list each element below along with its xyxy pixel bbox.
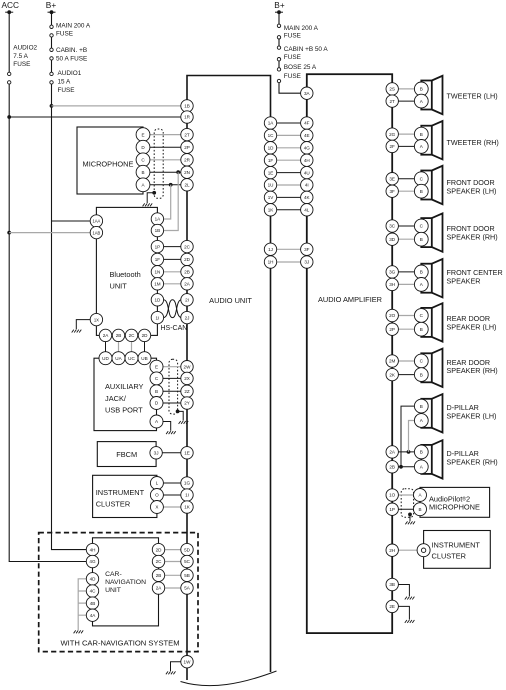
D-pillar speaker LH icon — [421, 394, 442, 432]
microphone pin A — [136, 178, 150, 192]
svg-text:INSTRUMENT: INSTRUMENT — [96, 488, 145, 497]
svg-text:MICROPHONE: MICROPHONE — [429, 503, 480, 512]
amplifier pin 3G — [386, 266, 398, 278]
front center speaker icon — [421, 259, 442, 297]
svg-text:3A: 3A — [304, 91, 311, 96]
audio unit pin 5A — [181, 582, 193, 594]
amplifier pin 2M — [386, 355, 398, 367]
wire mic D to 2P — [143, 146, 181, 148]
svg-text:CABIN +B 50 A: CABIN +B 50 A — [284, 46, 329, 53]
aux jack pin D — [150, 397, 163, 410]
svg-text:1G: 1G — [184, 481, 191, 486]
svg-text:1C: 1C — [268, 133, 275, 138]
audio unit pin 2J — [181, 311, 193, 323]
svg-text:SPEAKER (RH): SPEAKER (RH) — [447, 457, 498, 466]
aux jack pin A — [150, 415, 163, 428]
audio unit pin 1J — [264, 243, 276, 255]
svg-text:2B: 2B — [389, 465, 395, 470]
wire amp 3D to front door RH B — [392, 238, 421, 240]
amplifier pin 1O — [386, 489, 398, 501]
bluetooth pin 2B — [112, 329, 124, 341]
svg-text:15 A: 15 A — [58, 79, 72, 86]
svg-text:CABIN. +B: CABIN. +B — [56, 47, 87, 54]
svg-text:4E: 4E — [304, 133, 310, 138]
aux/usb shielded cable — [169, 359, 178, 414]
svg-text:X: X — [155, 505, 158, 510]
car-nav pin 4D — [86, 573, 98, 585]
svg-text:2T: 2T — [184, 132, 190, 137]
svg-text:USB PORT: USB PORT — [105, 406, 143, 415]
svg-text:7.5 A: 7.5 A — [13, 53, 28, 60]
svg-text:2P: 2P — [184, 145, 190, 150]
fuse CABIN +B 50A (2) — [277, 46, 280, 61]
svg-text:3C: 3C — [389, 224, 396, 229]
aux jack pin UC — [125, 352, 138, 365]
amplifier pin 2O — [386, 309, 398, 321]
amplifier pin 2T — [386, 95, 398, 107]
wire bt 2B to aux UA — [118, 341, 120, 352]
wire amp 3G to front center B — [392, 271, 421, 273]
wire amp 2K to rear door RH B — [392, 374, 421, 376]
svg-text:3B: 3B — [389, 582, 395, 587]
svg-text:AUXILIARY: AUXILIARY — [105, 382, 144, 391]
svg-text:1F: 1F — [268, 158, 274, 163]
amplifier pin 4H — [301, 154, 313, 166]
wire bt 2C to aux UC — [131, 341, 133, 352]
bluetooth pin 1P — [151, 240, 163, 252]
wire bt 1P to 2C — [164, 246, 182, 248]
amplifier pin 3F — [301, 243, 313, 255]
front door LH pin B — [414, 184, 428, 198]
wire cluster L to 1G — [157, 482, 181, 484]
svg-text:3H: 3H — [389, 282, 395, 287]
car-nav pin 4H — [86, 543, 98, 555]
audio unit pin 2A — [181, 278, 193, 290]
amplifier pin 2K — [386, 368, 398, 380]
audio unit pin 1B — [181, 100, 193, 112]
fuse MAIN 200A — [50, 25, 53, 37]
ground (amp 2E) — [405, 620, 415, 623]
rear door RH pin C — [414, 354, 428, 368]
svg-text:1P: 1P — [389, 507, 395, 512]
svg-text:B: B — [420, 270, 423, 275]
svg-text:2O: 2O — [389, 313, 396, 318]
svg-text:5B: 5B — [184, 573, 190, 578]
bluetooth pin 1A — [151, 213, 163, 225]
bluetooth pin 1N — [151, 266, 163, 278]
svg-text:50 A FUSE: 50 A FUSE — [56, 56, 87, 63]
wire to D-pillar LH A — [409, 421, 422, 452]
svg-text:TWEETER (RH): TWEETER (RH) — [447, 138, 499, 147]
svg-text:1O: 1O — [389, 493, 396, 498]
bluetooth unit box — [96, 207, 157, 335]
svg-text:B: B — [420, 450, 423, 455]
svg-text:HS-CAN: HS-CAN — [161, 325, 188, 332]
front door speaker LH icon — [421, 166, 442, 204]
wire bt 1M to 2A — [164, 283, 182, 285]
wire cluster X to 1K — [157, 506, 181, 508]
audio unit pin 1F — [264, 154, 276, 166]
svg-text:UNIT: UNIT — [110, 282, 128, 291]
svg-text:4K: 4K — [304, 195, 311, 200]
svg-text:2J: 2J — [185, 315, 190, 320]
wire amp 3F to front door LH B — [392, 190, 421, 192]
svg-text:1K: 1K — [184, 505, 191, 510]
wire mic B to 2N — [143, 171, 181, 173]
svg-text:1A: 1A — [155, 217, 162, 222]
rear door speaker RH icon — [421, 349, 442, 387]
D-pillar RH pin B — [414, 445, 428, 459]
svg-text:1I: 1I — [185, 493, 189, 498]
svg-text:SPEAKER (RH): SPEAKER (RH) — [447, 233, 498, 242]
wire audio unit to amplifier y=172.6 — [277, 172, 301, 174]
ground (audiopilot shield) — [405, 521, 415, 524]
ground (audio unit 1W) — [166, 671, 176, 674]
svg-text:1D: 1D — [268, 146, 275, 151]
wire nav 2A to 5A — [165, 587, 182, 589]
audio unit pin 1H — [264, 256, 276, 268]
bluetooth pin 2A — [99, 329, 111, 341]
audio unit pin 1D — [264, 142, 276, 154]
D-pillar RH pin A — [414, 460, 428, 474]
wire nav 2D to 5D — [165, 549, 182, 551]
wire B+ to nav 4H — [87, 549, 93, 551]
svg-text:1B: 1B — [155, 228, 161, 233]
svg-text:B: B — [155, 389, 158, 394]
wire audio unit to amplifier y=197.4 — [277, 196, 301, 198]
wire amp 2O to rear door LH C — [392, 315, 421, 317]
wire cluster O to 1I — [157, 494, 181, 496]
svg-text:3E: 3E — [389, 176, 395, 181]
audio unit pin 2X — [181, 372, 193, 384]
svg-text:SPEAKER (LH): SPEAKER (LH) — [447, 187, 497, 196]
wire nav 2B to 5B — [165, 574, 182, 576]
wire ACC to audio unit 1R — [9, 116, 181, 118]
ground (bluetooth 1X) — [72, 330, 82, 333]
svg-text:B: B — [420, 372, 423, 377]
bluetooth pin 2C — [125, 329, 137, 341]
rear door RH pin B — [414, 368, 428, 382]
svg-text:WITH CAR-NAVIGATION SYSTEM: WITH CAR-NAVIGATION SYSTEM — [60, 638, 179, 647]
svg-text:1AA: 1AA — [92, 219, 100, 224]
wire ACC to nav 4G — [87, 561, 93, 563]
amplifier pin 3E — [386, 173, 398, 185]
svg-text:B: B — [420, 237, 423, 242]
svg-text:4G: 4G — [89, 559, 96, 564]
audio unit pin 1W — [181, 656, 193, 668]
svg-text:1I: 1I — [155, 315, 159, 320]
svg-text:B+: B+ — [274, 0, 285, 10]
svg-text:BOSE 25 A: BOSE 25 A — [284, 64, 317, 71]
tweeter LH pin A — [414, 94, 428, 108]
svg-text:INSTRUMENT: INSTRUMENT — [432, 540, 481, 549]
wire amp 2B to D-pillar RH A — [392, 466, 421, 468]
with car-navigation system dashed box — [39, 533, 198, 652]
svg-text:2A: 2A — [103, 333, 110, 338]
junction D-pillar 2B — [399, 465, 403, 469]
wire aux C to 2X — [157, 377, 182, 379]
amplifier pin 3C — [386, 220, 398, 232]
microphone pin B — [136, 165, 150, 179]
svg-text:2N: 2N — [184, 170, 190, 175]
svg-text:FUSE: FUSE — [284, 73, 301, 80]
svg-text:FUSE: FUSE — [58, 87, 75, 94]
audiopilot mic shielded cable — [401, 489, 413, 518]
amplifier pin 4K — [301, 191, 313, 203]
audiopilot microphone box — [420, 487, 490, 517]
svg-text:2L: 2L — [184, 183, 190, 188]
svg-text:FUSE: FUSE — [284, 54, 301, 61]
svg-text:1E: 1E — [184, 451, 190, 456]
fuse BOSE 25A — [277, 68, 280, 83]
audio unit pin 2N — [181, 166, 193, 178]
svg-text:1AB: 1AB — [92, 230, 100, 235]
svg-text:2S: 2S — [389, 87, 395, 92]
car-nav pin 4C — [86, 585, 98, 597]
svg-text:UC: UC — [128, 356, 135, 361]
amplifier pin 4F — [301, 117, 313, 129]
svg-text:4H: 4H — [90, 547, 96, 552]
wire amp 2A to D-pillar RH B — [392, 451, 421, 453]
svg-text:3F: 3F — [390, 189, 396, 194]
wire audio unit to amplifier y=185 — [277, 184, 301, 186]
wire mic A to 2L — [143, 184, 181, 186]
svg-text:2P: 2P — [389, 327, 395, 332]
amplifier pin 2G — [386, 128, 398, 140]
svg-text:B: B — [420, 189, 423, 194]
junction mic shield — [152, 191, 156, 195]
aux jack pin E — [150, 360, 163, 373]
aux jack pin UA — [112, 352, 125, 365]
svg-text:UD: UD — [102, 356, 109, 361]
fuse MAIN 200A (2) — [277, 24, 280, 39]
svg-text:4G: 4G — [304, 146, 311, 151]
svg-text:3J: 3J — [304, 260, 309, 265]
wire amp 3C to front door RH C — [392, 225, 421, 227]
amplifier pin 2A — [386, 446, 398, 458]
fuse CABIN +B 50A — [50, 48, 53, 60]
svg-text:2D: 2D — [142, 333, 149, 338]
svg-text:3F: 3F — [304, 247, 310, 252]
svg-text:2K: 2K — [389, 372, 396, 377]
microphone pin E — [136, 128, 150, 142]
bluetooth 1X ground wire — [76, 320, 90, 330]
instrument cluster box (left) — [93, 475, 157, 517]
wire bt 1N to 2B — [164, 271, 182, 273]
svg-text:2F: 2F — [390, 144, 396, 149]
svg-text:B: B — [420, 87, 423, 92]
wire audio unit to amplifier y=147.8 — [277, 147, 301, 149]
wire aux D to 2Y — [157, 402, 182, 404]
amplifier pin 3H — [386, 278, 398, 290]
svg-text:2G: 2G — [389, 132, 396, 137]
wire nav 2C to 5C — [165, 561, 182, 563]
svg-text:ACC: ACC — [2, 0, 20, 10]
ground (amp 3B) — [405, 597, 415, 600]
svg-text:1H: 1H — [268, 260, 274, 265]
svg-text:UB: UB — [141, 356, 147, 361]
svg-text:B+: B+ — [46, 0, 57, 10]
mic shield ground wire — [147, 193, 154, 203]
wire audio unit to amplifier y=160.2 — [277, 159, 301, 161]
svg-text:2I: 2I — [185, 298, 189, 303]
svg-text:UA: UA — [115, 356, 122, 361]
HS-CAN twisted pair — [164, 300, 182, 318]
svg-text:CLUSTER: CLUSTER — [96, 499, 131, 508]
wire amp 1O to audiopilot A — [392, 494, 420, 496]
wire amp 2H to instrument cluster — [392, 549, 423, 551]
amplifier pin 2S — [386, 83, 398, 95]
ground (mic shield) — [143, 203, 153, 206]
fuse AUDIO2 7.5A — [8, 72, 11, 84]
svg-text:4A: 4A — [90, 613, 97, 618]
svg-text:B: B — [420, 404, 423, 409]
amplifier pin 2E — [386, 600, 398, 612]
car-nav pin 2D — [152, 543, 164, 555]
ground (aux A) — [166, 431, 176, 434]
page break wavy line — [181, 671, 277, 686]
audio unit pin 1I — [181, 489, 193, 501]
svg-text:2T: 2T — [390, 99, 396, 104]
amplifier pin 3J — [301, 256, 313, 268]
svg-text:1U: 1U — [268, 183, 274, 188]
wire ACC to bluetooth 1AB — [9, 232, 90, 234]
wire audio unit to amplifier y=209.8 — [277, 209, 301, 211]
ground (car-nav) — [74, 630, 84, 633]
svg-text:4F: 4F — [304, 121, 310, 126]
microphone pin D — [136, 140, 150, 154]
junction audiopilot shield — [408, 513, 412, 517]
svg-text:B: B — [141, 170, 144, 175]
1W ground wire — [171, 662, 182, 671]
svg-text:2Y: 2Y — [184, 401, 190, 406]
amplifier pin 4I — [301, 179, 313, 191]
bluetooth pin 1B — [151, 224, 163, 236]
svg-text:TWEETER (LH): TWEETER (LH) — [447, 92, 498, 101]
fbcm box — [97, 442, 156, 467]
rear door LH pin B — [414, 322, 428, 336]
audio unit box — [187, 76, 271, 681]
audio unit pin 1C — [264, 129, 276, 141]
svg-text:2R: 2R — [184, 158, 191, 163]
audiopilot shield ground wire — [409, 514, 411, 521]
front center pin A — [414, 278, 428, 292]
wire bt 2A to aux UD — [105, 341, 107, 352]
svg-text:1B: 1B — [184, 104, 190, 109]
amplifier pin 4L — [301, 204, 313, 216]
audio unit pin 2R — [181, 154, 193, 166]
fuse AUDIO1 15A — [50, 72, 53, 84]
bluetooth pin 1F — [151, 253, 163, 265]
svg-text:E: E — [155, 364, 158, 369]
wire amp 2S to tweeter LH B — [392, 88, 421, 90]
wire audio unit to amplifier y=262 — [277, 261, 301, 263]
svg-text:1N: 1N — [154, 270, 160, 275]
audio unit pin 2T — [181, 128, 193, 140]
wire aux B to 2Z — [157, 390, 182, 392]
aux shield ground wire — [178, 411, 184, 420]
tweeter RH icon — [421, 121, 442, 159]
wire aux E to 2W — [157, 366, 182, 368]
aux jack pin C — [150, 372, 163, 385]
svg-text:3D: 3D — [389, 237, 396, 242]
front center pin B — [414, 265, 428, 279]
svg-text:4B: 4B — [90, 601, 96, 606]
svg-text:SPEAKER: SPEAKER — [447, 276, 481, 285]
aux jack pin UB — [138, 352, 151, 365]
svg-text:5D: 5D — [184, 547, 191, 552]
svg-text:1R: 1R — [184, 115, 191, 120]
audio unit pin 2I — [181, 294, 193, 306]
bluetooth pin 1AA — [90, 215, 102, 227]
svg-text:4C: 4C — [90, 589, 97, 594]
bluetooth pin 1X — [90, 313, 102, 325]
aux jack pin UD — [99, 352, 112, 365]
svg-text:1X: 1X — [94, 317, 99, 322]
svg-text:2M: 2M — [389, 359, 396, 364]
bluetooth pin 2D — [138, 329, 150, 341]
front door RH pin C — [414, 219, 428, 233]
car-navigation unit box — [93, 538, 159, 626]
svg-text:4I: 4I — [305, 183, 309, 188]
svg-text:SPEAKER (LH): SPEAKER (LH) — [447, 412, 497, 421]
wire mic E to 2T — [143, 134, 181, 136]
wire amp 3E to front door LH C — [392, 178, 421, 180]
svg-text:FRONT DOOR: FRONT DOOR — [447, 224, 495, 233]
junction mic B wire — [176, 170, 180, 174]
svg-text:2C: 2C — [184, 244, 191, 249]
svg-text:FBCM: FBCM — [116, 450, 137, 459]
svg-text:L: L — [156, 481, 159, 486]
svg-text:5C: 5C — [184, 559, 191, 564]
car-nav pin 4G — [86, 555, 98, 567]
ground (aux shield) — [179, 421, 189, 424]
junction aux shield — [176, 410, 180, 414]
svg-text:2W: 2W — [184, 364, 192, 369]
B+ terminal 1 — [48, 10, 56, 14]
svg-text:2A: 2A — [184, 282, 191, 287]
svg-text:1M: 1M — [154, 282, 161, 287]
svg-text:AUDIO2: AUDIO2 — [13, 44, 37, 51]
wire amp 3H to front center A — [392, 283, 421, 285]
svg-text:2A: 2A — [156, 586, 163, 591]
audio unit pin 1E — [264, 166, 276, 178]
svg-text:CLUSTER: CLUSTER — [432, 551, 467, 560]
bluetooth pin 1AB — [90, 226, 102, 238]
junction D-pillar 2A — [407, 450, 411, 454]
wire B+ to bluetooth 1AA — [52, 220, 91, 222]
junction mic A wire — [169, 183, 173, 187]
svg-text:4U: 4U — [304, 170, 310, 175]
audio amplifier box — [307, 74, 392, 633]
audio unit pin 1A — [264, 117, 276, 129]
bluetooth pin 1M — [151, 278, 163, 290]
svg-text:B: B — [418, 507, 421, 512]
audio unit pin 1R — [181, 111, 193, 123]
svg-text:2B: 2B — [116, 333, 122, 338]
instrument cluster (right) pin — [417, 544, 430, 557]
audio unit pin 1K — [181, 501, 193, 513]
ACC rail — [9, 12, 86, 561]
tweeter LH icon — [421, 76, 442, 114]
instrument cluster pin X — [150, 501, 163, 514]
microphone box — [77, 127, 143, 194]
instrument cluster pin L — [150, 477, 163, 490]
audio unit pin 2L — [181, 179, 193, 191]
B+ rail 1 — [52, 12, 87, 549]
wire to bluetooth 1A — [164, 185, 171, 219]
audio unit pin 1G — [181, 477, 193, 489]
